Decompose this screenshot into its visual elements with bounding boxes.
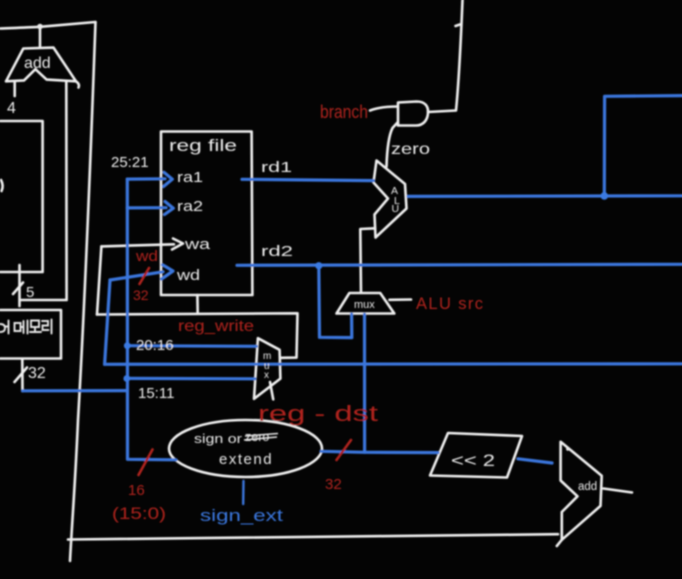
svg-text:wa: wa bbox=[184, 237, 212, 253]
svg-text:15:11: 15:11 bbox=[138, 385, 174, 402]
svg-text:32: 32 bbox=[28, 365, 46, 382]
svg-text:ra2: ra2 bbox=[177, 199, 203, 215]
svg-text:rd2: rd2 bbox=[261, 243, 293, 260]
svg-text:32: 32 bbox=[325, 476, 342, 493]
svg-text:zero: zero bbox=[245, 430, 269, 444]
svg-text:25:21: 25:21 bbox=[111, 154, 149, 171]
svg-text:branch: branch bbox=[320, 101, 368, 122]
svg-text:extend: extend bbox=[219, 451, 273, 468]
svg-text:5: 5 bbox=[26, 284, 34, 301]
svg-text:16: 16 bbox=[128, 482, 145, 499]
svg-text:sign or: sign or bbox=[194, 432, 242, 446]
svg-text:20:16: 20:16 bbox=[136, 337, 174, 354]
svg-text:U: U bbox=[392, 203, 400, 215]
svg-text:x: x bbox=[264, 370, 269, 381]
svg-text:<< 2: << 2 bbox=[451, 451, 495, 470]
svg-text:reg file: reg file bbox=[169, 137, 237, 155]
svg-text:reg - dst: reg - dst bbox=[258, 401, 378, 426]
svg-text:wd: wd bbox=[135, 249, 158, 265]
svg-text:sign_ext: sign_ext bbox=[200, 506, 283, 525]
svg-text:add: add bbox=[578, 481, 597, 493]
svg-text:reg_write: reg_write bbox=[178, 318, 254, 335]
svg-text:mux: mux bbox=[354, 299, 375, 311]
svg-text:4: 4 bbox=[7, 100, 16, 117]
svg-text:add: add bbox=[24, 55, 51, 72]
svg-text:rd1: rd1 bbox=[261, 159, 292, 176]
svg-text:zero: zero bbox=[391, 141, 430, 158]
svg-text:ra1: ra1 bbox=[177, 170, 203, 186]
svg-text:ALU src: ALU src bbox=[416, 295, 483, 313]
svg-text:wd: wd bbox=[176, 268, 200, 284]
svg-text:(15:0): (15:0) bbox=[112, 504, 166, 523]
svg-text:32: 32 bbox=[133, 287, 149, 303]
